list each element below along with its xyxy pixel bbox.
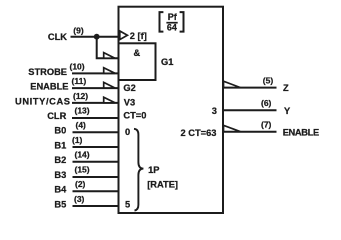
svg-text:(9): (9) <box>73 26 84 36</box>
svg-text:B4: B4 <box>54 185 67 195</box>
svg-text:0: 0 <box>125 127 130 137</box>
svg-text:Y: Y <box>284 106 291 116</box>
svg-text:1P: 1P <box>148 165 159 175</box>
svg-text:64: 64 <box>167 23 177 33</box>
svg-text:2 [f]: 2 [f] <box>130 31 147 41</box>
svg-text:V3: V3 <box>124 98 135 108</box>
svg-text:(15): (15) <box>75 165 90 175</box>
svg-text:&: & <box>134 48 141 58</box>
svg-text:UNITY/CAS: UNITY/CAS <box>15 96 70 106</box>
svg-text:3: 3 <box>212 106 217 116</box>
svg-text:(12): (12) <box>73 91 88 101</box>
svg-text:(14): (14) <box>75 150 90 160</box>
svg-text:(7): (7) <box>261 120 272 130</box>
svg-text:B0: B0 <box>54 126 66 136</box>
svg-text:(10): (10) <box>70 61 85 71</box>
svg-text:(2): (2) <box>75 179 86 189</box>
svg-text:(11): (11) <box>72 76 87 86</box>
svg-text:STROBE: STROBE <box>28 67 67 77</box>
svg-text:[RATE]: [RATE] <box>147 179 178 189</box>
svg-text:B5: B5 <box>54 200 66 210</box>
svg-text:(13): (13) <box>75 106 90 116</box>
svg-text:5: 5 <box>125 199 130 209</box>
svg-text:B1: B1 <box>54 141 66 151</box>
svg-text:CLR: CLR <box>47 111 66 121</box>
svg-text:ENABLE: ENABLE <box>30 82 68 92</box>
svg-text:(6): (6) <box>261 98 272 108</box>
svg-text:G2: G2 <box>123 83 135 93</box>
svg-text:2 CT=63: 2 CT=63 <box>181 128 217 138</box>
svg-text:B3: B3 <box>54 170 66 180</box>
svg-text:Z: Z <box>283 83 289 93</box>
svg-text:(5): (5) <box>263 76 274 86</box>
svg-text:(4): (4) <box>76 120 87 130</box>
svg-text:(3): (3) <box>74 194 85 204</box>
svg-text:CLK: CLK <box>48 32 67 42</box>
svg-text:CT=0: CT=0 <box>123 111 146 121</box>
svg-text:Pf: Pf <box>168 12 178 22</box>
svg-text:(1): (1) <box>72 135 83 145</box>
svg-text:B2: B2 <box>54 155 66 165</box>
svg-text:ENABLE: ENABLE <box>283 128 320 138</box>
svg-text:G1: G1 <box>161 57 173 67</box>
